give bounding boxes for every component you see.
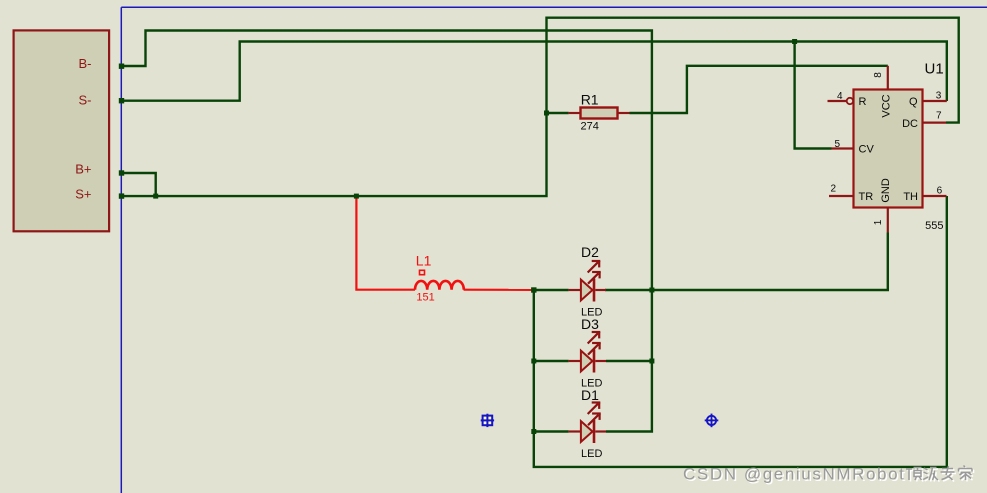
svg-text:R: R	[859, 96, 867, 108]
svg-text:7: 7	[936, 111, 942, 122]
555 timer U1	[828, 66, 947, 233]
svg-text:DC: DC	[902, 118, 918, 130]
svg-text:6: 6	[937, 186, 943, 197]
wire TH pin6 to bottom and LED anode bus	[534, 196, 947, 467]
wire S+ to R1 and DC pin7	[121, 18, 958, 196]
svg-text:B+: B+	[75, 162, 91, 177]
junction B+	[119, 170, 124, 175]
junction D1 anode	[531, 429, 536, 434]
svg-text:274: 274	[581, 120, 599, 132]
svg-text:2: 2	[830, 183, 836, 194]
svg-text:S-: S-	[79, 93, 92, 108]
junction D3 cathode bus	[649, 359, 654, 364]
svg-text:4: 4	[837, 91, 843, 102]
wire R1 left stub	[547, 112, 569, 114]
svg-text:D2: D2	[581, 244, 599, 260]
wire B+	[121, 173, 155, 196]
connector J1 (battery terminal block)	[14, 30, 110, 231]
origin marker right	[705, 414, 719, 428]
junction D2 anode	[531, 287, 536, 292]
wire to CV pin5	[795, 42, 832, 149]
svg-text:LED: LED	[581, 448, 602, 460]
svg-text:8: 8	[873, 72, 884, 78]
junction B-	[119, 64, 124, 69]
origin marker left	[481, 414, 494, 427]
wire L1 net (red)	[356, 196, 415, 290]
svg-text:1: 1	[873, 219, 884, 225]
wire S- to Q pin3	[121, 42, 947, 102]
junction S+	[119, 193, 124, 198]
svg-text:B-: B-	[79, 56, 92, 71]
junction D3 anode	[531, 359, 536, 364]
wire D2 cathode to GND pin1	[605, 233, 888, 291]
wire D3 cathode to bus	[606, 360, 652, 362]
junction L1 tap	[354, 194, 359, 199]
wire D3 anode stub	[534, 360, 569, 362]
svg-text:555: 555	[925, 220, 943, 232]
svg-text:R1: R1	[581, 92, 599, 108]
junction D2 cathode bus	[649, 288, 654, 293]
wire R1 right to VCC pin8	[630, 66, 888, 113]
svg-text:Q: Q	[909, 96, 918, 108]
svg-text:D3: D3	[581, 316, 599, 332]
svg-text:CV: CV	[859, 144, 875, 156]
junction B+/S+ row	[153, 194, 158, 199]
svg-text:D1: D1	[581, 387, 599, 403]
svg-text:CSDN @geniusNMRobot: CSDN @geniusNMRobot	[683, 464, 905, 483]
svg-text:5: 5	[834, 139, 840, 150]
svg-text:L1: L1	[416, 253, 432, 269]
junction R1 left	[544, 111, 549, 116]
resistor R1	[569, 92, 630, 133]
svg-text:151: 151	[416, 292, 434, 304]
LED D1	[569, 387, 606, 460]
LED D3	[569, 316, 606, 390]
svg-text:S+: S+	[75, 186, 91, 201]
svg-text:U1: U1	[925, 60, 944, 77]
svg-text:TH: TH	[903, 191, 918, 203]
svg-text:3: 3	[936, 91, 942, 102]
svg-text:VCC: VCC	[881, 94, 893, 117]
wire B- to LED cathode bus	[121, 31, 652, 432]
wire D1 anode stub	[534, 430, 569, 432]
junction S-	[119, 98, 124, 103]
wire D2 anode stub	[534, 289, 569, 291]
inductor L1	[415, 253, 464, 304]
junction CV tap	[792, 39, 797, 44]
svg-text:TR: TR	[859, 191, 874, 203]
LED D2	[569, 244, 606, 319]
wire L1 to D2 anode (red)	[464, 289, 534, 291]
svg-text:GND: GND	[880, 178, 892, 203]
